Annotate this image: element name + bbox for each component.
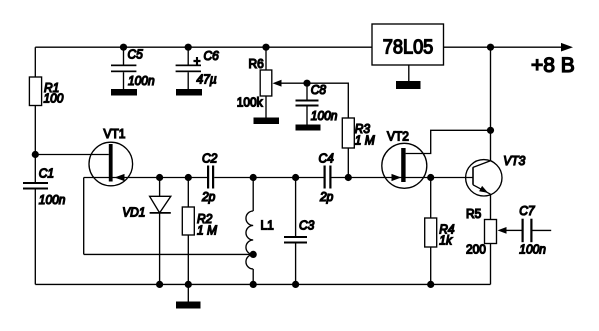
svg-text:1k: 1k <box>439 233 452 248</box>
resistor R1 <box>29 77 63 106</box>
svg-text:C7: C7 <box>519 203 535 218</box>
node: C3 top junction <box>292 174 299 181</box>
wire: feedback tap line to L1 <box>84 253 254 255</box>
svg-text:L1: L1 <box>261 218 274 233</box>
resistor R3 <box>342 118 375 148</box>
capacitor C4 <box>319 151 334 204</box>
node: R3 bottom junction <box>345 174 352 181</box>
svg-text:C3: C3 <box>299 218 314 233</box>
svg-text:100: 100 <box>44 91 64 106</box>
ground: under R6 <box>254 118 280 125</box>
svg-text:100n: 100n <box>128 74 155 89</box>
wire: VT2 drain route to collector node <box>406 130 491 153</box>
transistor VT1 (JFET) <box>89 127 133 186</box>
node: collector node junction <box>487 127 494 134</box>
resistor R4 <box>425 178 455 285</box>
svg-text:C4: C4 <box>319 151 334 166</box>
capacitor C2 <box>201 151 217 204</box>
svg-text:+: + <box>194 54 201 69</box>
wire: +8V branch down to VT3 collector <box>490 47 492 161</box>
node: R2 top junction <box>185 174 192 181</box>
node: L1 bottom junction <box>250 281 257 288</box>
node: C3 bottom junction <box>292 281 299 288</box>
svg-text:1 M: 1 M <box>197 223 218 238</box>
capacitor C8 <box>296 83 338 125</box>
node: L1 top junction <box>250 174 257 181</box>
ground: under 78L05 <box>396 81 421 89</box>
node: VT2 source / R4 junction <box>427 174 434 181</box>
ground: main bottom ground <box>176 284 201 308</box>
node: R6 top junction <box>262 44 269 51</box>
wire: 78L05 ground stem <box>408 65 410 81</box>
wire: signal wire C2 to C4 <box>214 177 323 179</box>
potentiometer R5 <box>466 206 497 284</box>
arrowhead: R6 wiper <box>273 80 282 87</box>
svg-text:1 M: 1 M <box>355 133 376 148</box>
wire: left rail C1 to bottom rail <box>34 190 36 285</box>
wire: R6 wiper to R3 top <box>281 83 348 118</box>
wire: R3 bottom to signal wire <box>347 148 349 178</box>
node: C8 junction on wiper wire <box>303 80 310 87</box>
svg-text:2p: 2p <box>201 190 215 205</box>
node: gate node junction <box>32 151 39 158</box>
svg-text:R6: R6 <box>249 57 264 72</box>
svg-text:VT1: VT1 <box>104 127 126 142</box>
svg-text:C8: C8 <box>311 83 326 98</box>
svg-text:VD1: VD1 <box>122 205 145 220</box>
diode VD1 <box>122 178 171 285</box>
wire: bottom ground rail <box>35 283 490 285</box>
node: C6 top junction <box>185 44 192 51</box>
regulator U1 78L05 <box>372 24 444 65</box>
node: +8V output junction <box>487 44 494 51</box>
svg-text:C2: C2 <box>202 151 217 166</box>
wire: VT1 gate lead <box>35 154 109 156</box>
node: VD1 bottom junction <box>156 281 163 288</box>
node: C5 top junction <box>120 44 127 51</box>
capacitor C3 <box>284 178 314 285</box>
wire: main signal wire left part (VT1 source to C2) <box>84 177 207 179</box>
wire: VT3 emitter to R5 <box>490 194 492 219</box>
capacitor C6 <box>176 47 219 89</box>
wire: left rail R1 to C1 <box>34 106 36 183</box>
wire: signal wire C4 to VT3 base <box>332 177 474 179</box>
svg-text:200: 200 <box>466 242 486 257</box>
node: R2 bottom / ground junction <box>185 281 192 288</box>
svg-text:VT2: VT2 <box>387 129 409 144</box>
capacitor C7 <box>506 203 551 256</box>
svg-text:+8 В: +8 В <box>531 54 575 77</box>
wire: top +8V rail left segment <box>35 46 372 48</box>
svg-text:C6: C6 <box>204 49 219 64</box>
transistor VT3 (NPN) <box>466 154 526 196</box>
ground: under C8 <box>296 125 321 131</box>
capacitor C1 <box>23 166 65 207</box>
ground: under C5 <box>111 89 137 96</box>
node: L1 tap junction <box>250 251 257 258</box>
svg-text:78L05: 78L05 <box>383 37 434 59</box>
wire: left rail top (to R1) <box>34 47 36 77</box>
svg-text:C1: C1 <box>39 166 54 181</box>
inductor L1 <box>246 178 274 285</box>
svg-text:2p: 2p <box>319 190 333 205</box>
output arrowhead +8V <box>561 43 573 52</box>
node: VD1 top junction <box>156 174 163 181</box>
resistor R2 <box>182 178 217 285</box>
svg-text:100n: 100n <box>519 242 546 257</box>
node: R4 bottom junction <box>427 281 434 288</box>
svg-text:R5: R5 <box>466 206 481 221</box>
wire: feedback drop from VT1 source <box>83 178 85 255</box>
svg-text:100n: 100n <box>311 109 338 124</box>
capacitor C5 <box>111 47 155 89</box>
arrowhead: R5 wiper <box>498 227 507 234</box>
transistor VT2 (JFET) <box>382 129 427 188</box>
svg-text:47µ: 47µ <box>197 72 217 87</box>
svg-text:VT3: VT3 <box>503 154 525 169</box>
ground: under C6 <box>176 89 202 96</box>
svg-text:100n: 100n <box>39 193 66 208</box>
potentiometer R6 <box>237 47 272 117</box>
wire: top +8V rail right segment to output arrow <box>444 46 563 48</box>
svg-text:C5: C5 <box>128 47 143 62</box>
svg-text:100k: 100k <box>237 95 264 110</box>
